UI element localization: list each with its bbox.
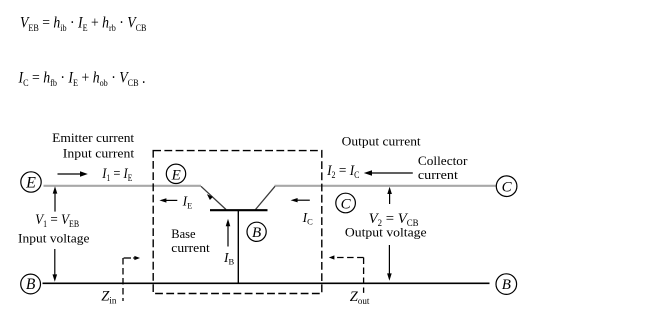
svg-text:Output voltage: Output voltage [345, 225, 427, 239]
svg-text:B: B [252, 225, 261, 241]
svg-text:IC = hfb · IE + hob · VCB .: IC = hfb · IE + hob · VCB . [18, 69, 146, 89]
svg-text:E: E [171, 167, 181, 183]
svg-text:E: E [25, 175, 36, 192]
svg-text:current: current [418, 168, 459, 182]
svg-text:C: C [502, 179, 513, 195]
svg-text:Input current: Input current [63, 147, 135, 161]
svg-text:Base: Base [171, 227, 196, 241]
svg-text:Output current: Output current [342, 135, 422, 149]
svg-text:C: C [341, 196, 352, 212]
svg-text:B: B [502, 277, 511, 293]
svg-text:B: B [26, 276, 36, 293]
svg-text:Emitter current: Emitter current [52, 131, 135, 145]
svg-text:current: current [171, 241, 210, 255]
svg-text:Input voltage: Input voltage [18, 232, 90, 246]
svg-text:Collector: Collector [418, 154, 468, 168]
